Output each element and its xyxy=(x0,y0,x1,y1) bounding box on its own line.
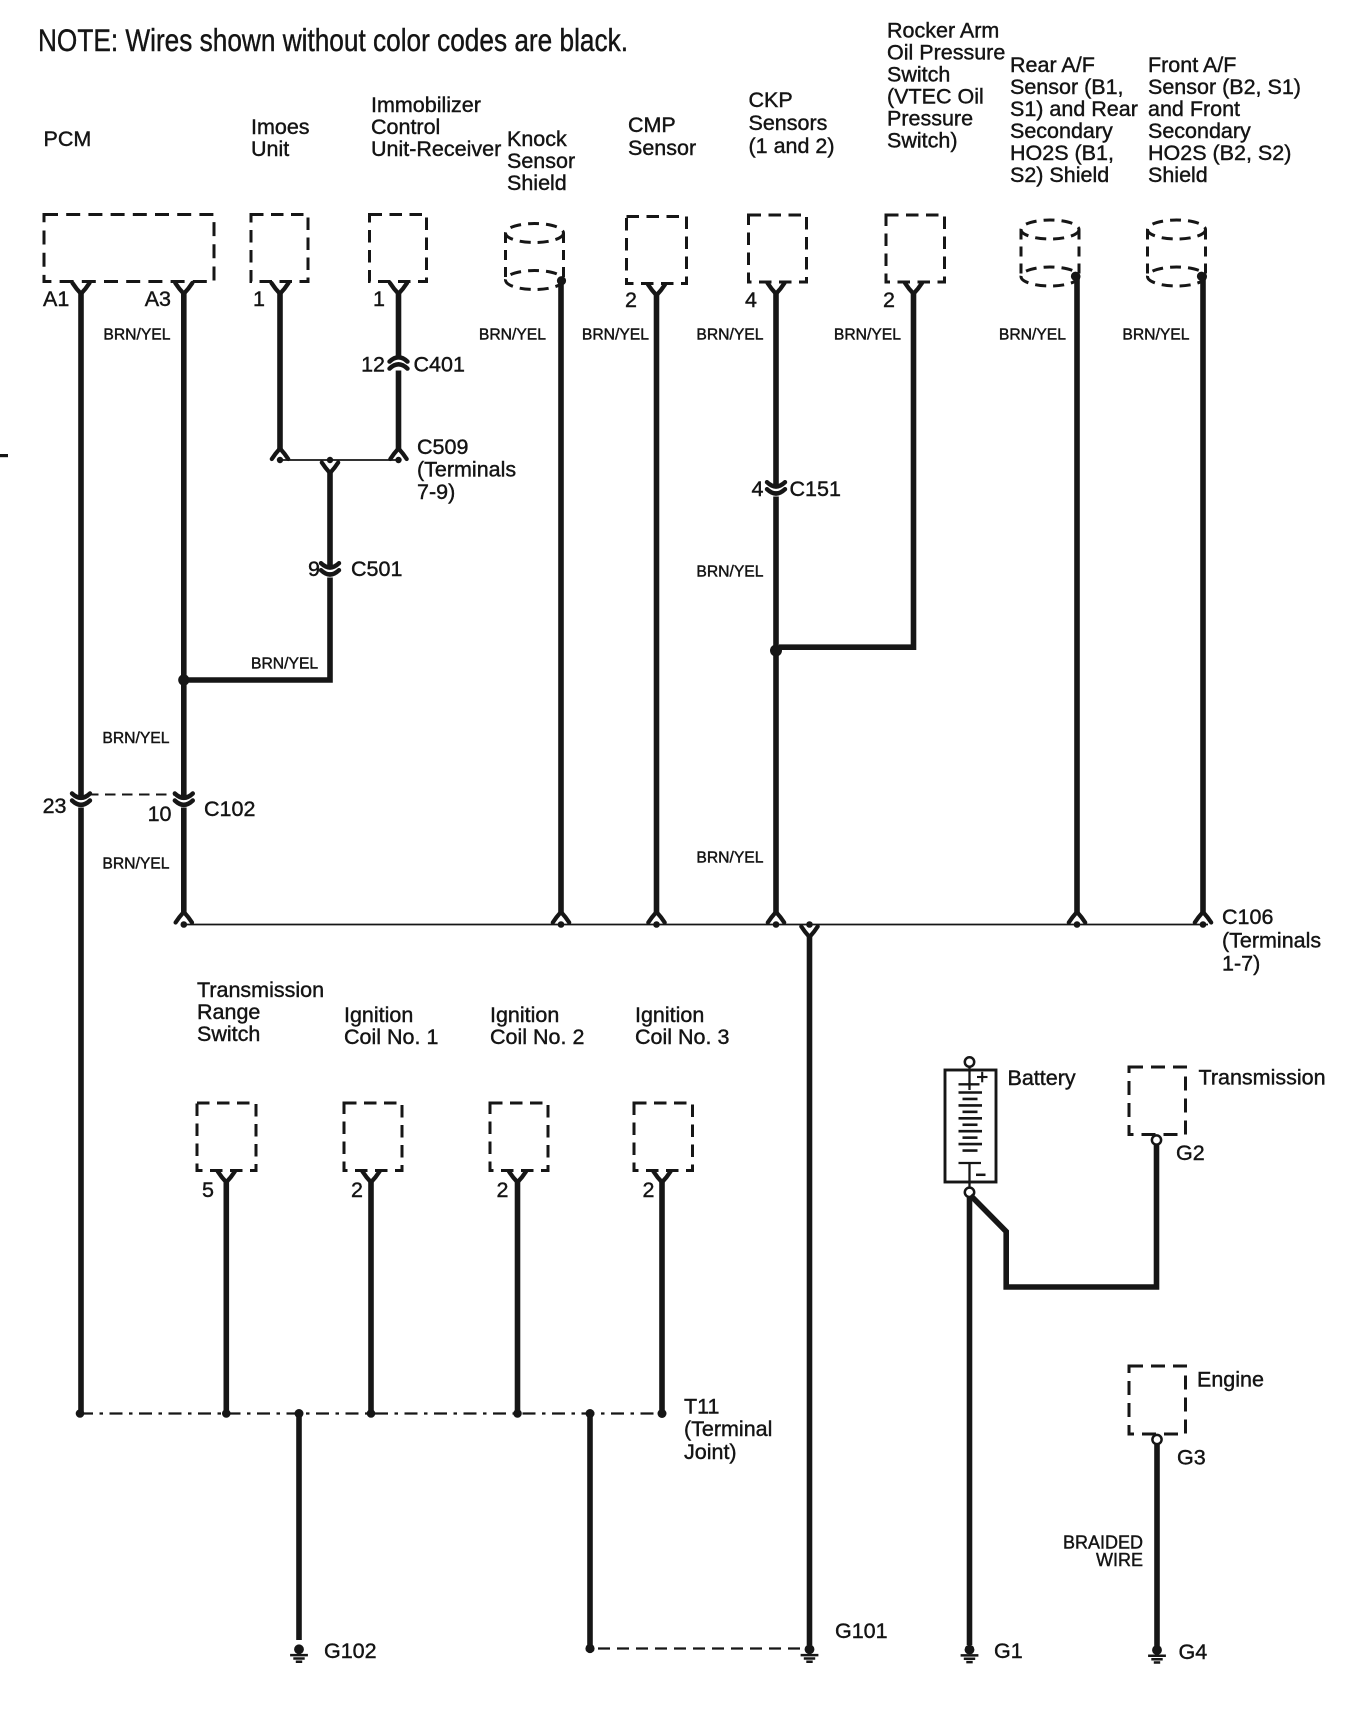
svg-text:1-7): 1-7) xyxy=(1222,952,1260,976)
svg-text:Shield: Shield xyxy=(1148,163,1208,187)
svg-text:G4: G4 xyxy=(1179,1640,1208,1664)
svg-text:WIRE: WIRE xyxy=(1096,1550,1143,1570)
svg-text:CMP: CMP xyxy=(628,113,676,137)
svg-text:(1 and 2): (1 and 2) xyxy=(749,134,835,158)
svg-text:BRN/YEL: BRN/YEL xyxy=(479,327,546,344)
svg-text:Rear A/F: Rear A/F xyxy=(1010,53,1095,77)
svg-text:Sensor (B1,: Sensor (B1, xyxy=(1010,75,1124,99)
svg-text:2: 2 xyxy=(497,1178,509,1202)
svg-text:BRN/YEL: BRN/YEL xyxy=(696,327,763,344)
svg-text:Coil No. 3: Coil No. 3 xyxy=(635,1025,729,1049)
svg-text:Switch: Switch xyxy=(887,63,950,87)
svg-text:9: 9 xyxy=(308,557,320,581)
svg-text:Front A/F: Front A/F xyxy=(1148,53,1236,77)
svg-text:NOTE: Wires shown without colo: NOTE: Wires shown without color codes ar… xyxy=(38,22,628,58)
svg-text:Unit-Receiver: Unit-Receiver xyxy=(371,137,501,161)
svg-text:(Terminals: (Terminals xyxy=(1222,928,1321,952)
svg-text:12: 12 xyxy=(361,353,385,377)
svg-text:BRN/YEL: BRN/YEL xyxy=(696,564,763,581)
svg-text:G101: G101 xyxy=(835,1619,888,1643)
svg-text:BRN/YEL: BRN/YEL xyxy=(582,327,649,344)
svg-text:Immobilizer: Immobilizer xyxy=(371,93,481,117)
svg-text:and Front: and Front xyxy=(1148,97,1240,121)
svg-text:(Terminal: (Terminal xyxy=(684,1417,772,1441)
svg-text:Coil No. 1: Coil No. 1 xyxy=(344,1025,438,1049)
svg-text:BRN/YEL: BRN/YEL xyxy=(834,327,901,344)
svg-text:1: 1 xyxy=(253,287,265,311)
svg-text:5: 5 xyxy=(202,1178,214,1202)
svg-text:PCM: PCM xyxy=(44,127,92,151)
svg-text:CKP: CKP xyxy=(749,88,793,112)
svg-text:C401: C401 xyxy=(414,353,465,377)
svg-text:BRN/YEL: BRN/YEL xyxy=(696,850,763,867)
svg-text:Coil No. 2: Coil No. 2 xyxy=(490,1025,584,1049)
svg-text:Secondary: Secondary xyxy=(1148,119,1251,143)
svg-text:BRN/YEL: BRN/YEL xyxy=(102,856,169,873)
svg-text:C151: C151 xyxy=(790,477,841,501)
svg-text:C509: C509 xyxy=(417,435,468,459)
svg-text:Rocker Arm: Rocker Arm xyxy=(887,19,999,43)
svg-text:Joint): Joint) xyxy=(684,1440,737,1464)
svg-text:(Terminals: (Terminals xyxy=(417,458,516,482)
svg-text:10: 10 xyxy=(148,802,172,826)
svg-text:HO2S (B1,: HO2S (B1, xyxy=(1010,141,1114,165)
svg-text:Sensor: Sensor xyxy=(628,136,696,160)
svg-text:4: 4 xyxy=(745,288,757,312)
svg-text:Oil Pressure: Oil Pressure xyxy=(887,41,1005,65)
svg-text:Ignition: Ignition xyxy=(490,1003,559,1027)
svg-text:G102: G102 xyxy=(324,1639,377,1663)
svg-text:T11: T11 xyxy=(684,1395,719,1419)
svg-text:Unit: Unit xyxy=(251,137,289,161)
svg-text:2: 2 xyxy=(643,1178,655,1202)
svg-text:S1) and Rear: S1) and Rear xyxy=(1010,97,1138,121)
svg-text:Range: Range xyxy=(197,1000,260,1024)
svg-text:Imoes: Imoes xyxy=(251,115,310,139)
svg-text:Secondary: Secondary xyxy=(1010,119,1113,143)
svg-text:Control: Control xyxy=(371,115,440,139)
svg-text:Pressure: Pressure xyxy=(887,107,973,131)
svg-text:(VTEC Oil: (VTEC Oil xyxy=(887,85,984,109)
svg-text:Engine: Engine xyxy=(1197,1368,1264,1392)
svg-text:BRN/YEL: BRN/YEL xyxy=(251,656,318,673)
svg-text:7-9): 7-9) xyxy=(417,480,455,504)
svg-text:Battery: Battery xyxy=(1008,1066,1076,1090)
svg-text:Switch): Switch) xyxy=(887,129,957,153)
svg-text:HO2S (B2, S2): HO2S (B2, S2) xyxy=(1148,141,1291,165)
svg-text:1: 1 xyxy=(373,287,385,311)
svg-text:S2) Shield: S2) Shield xyxy=(1010,163,1109,187)
svg-text:BRN/YEL: BRN/YEL xyxy=(102,730,169,747)
svg-text:Transmission: Transmission xyxy=(1199,1066,1326,1090)
svg-text:A3: A3 xyxy=(145,287,171,311)
svg-text:G1: G1 xyxy=(994,1639,1023,1663)
svg-text:G2: G2 xyxy=(1176,1141,1205,1165)
svg-text:A1: A1 xyxy=(43,287,69,311)
svg-text:BRN/YEL: BRN/YEL xyxy=(999,327,1066,344)
svg-text:BRN/YEL: BRN/YEL xyxy=(103,327,170,344)
svg-text:Switch: Switch xyxy=(197,1022,260,1046)
svg-text:Sensor (B2, S1): Sensor (B2, S1) xyxy=(1148,75,1301,99)
svg-text:Sensors: Sensors xyxy=(749,111,828,135)
svg-text:C501: C501 xyxy=(351,557,402,581)
svg-text:Ignition: Ignition xyxy=(635,1003,704,1027)
svg-text:BRN/YEL: BRN/YEL xyxy=(1122,327,1189,344)
svg-text:G3: G3 xyxy=(1177,1446,1206,1470)
svg-text:2: 2 xyxy=(625,288,637,312)
svg-text:C106: C106 xyxy=(1222,905,1273,929)
svg-text:C102: C102 xyxy=(204,797,255,821)
svg-text:Sensor: Sensor xyxy=(507,149,575,173)
svg-text:Transmission: Transmission xyxy=(197,978,324,1002)
svg-text:23: 23 xyxy=(43,794,67,818)
svg-text:Ignition: Ignition xyxy=(344,1003,413,1027)
svg-text:4: 4 xyxy=(752,477,764,501)
svg-text:2: 2 xyxy=(351,1178,363,1202)
svg-text:2: 2 xyxy=(883,288,895,312)
svg-text:Knock: Knock xyxy=(507,127,567,151)
svg-text:Shield: Shield xyxy=(507,171,567,195)
